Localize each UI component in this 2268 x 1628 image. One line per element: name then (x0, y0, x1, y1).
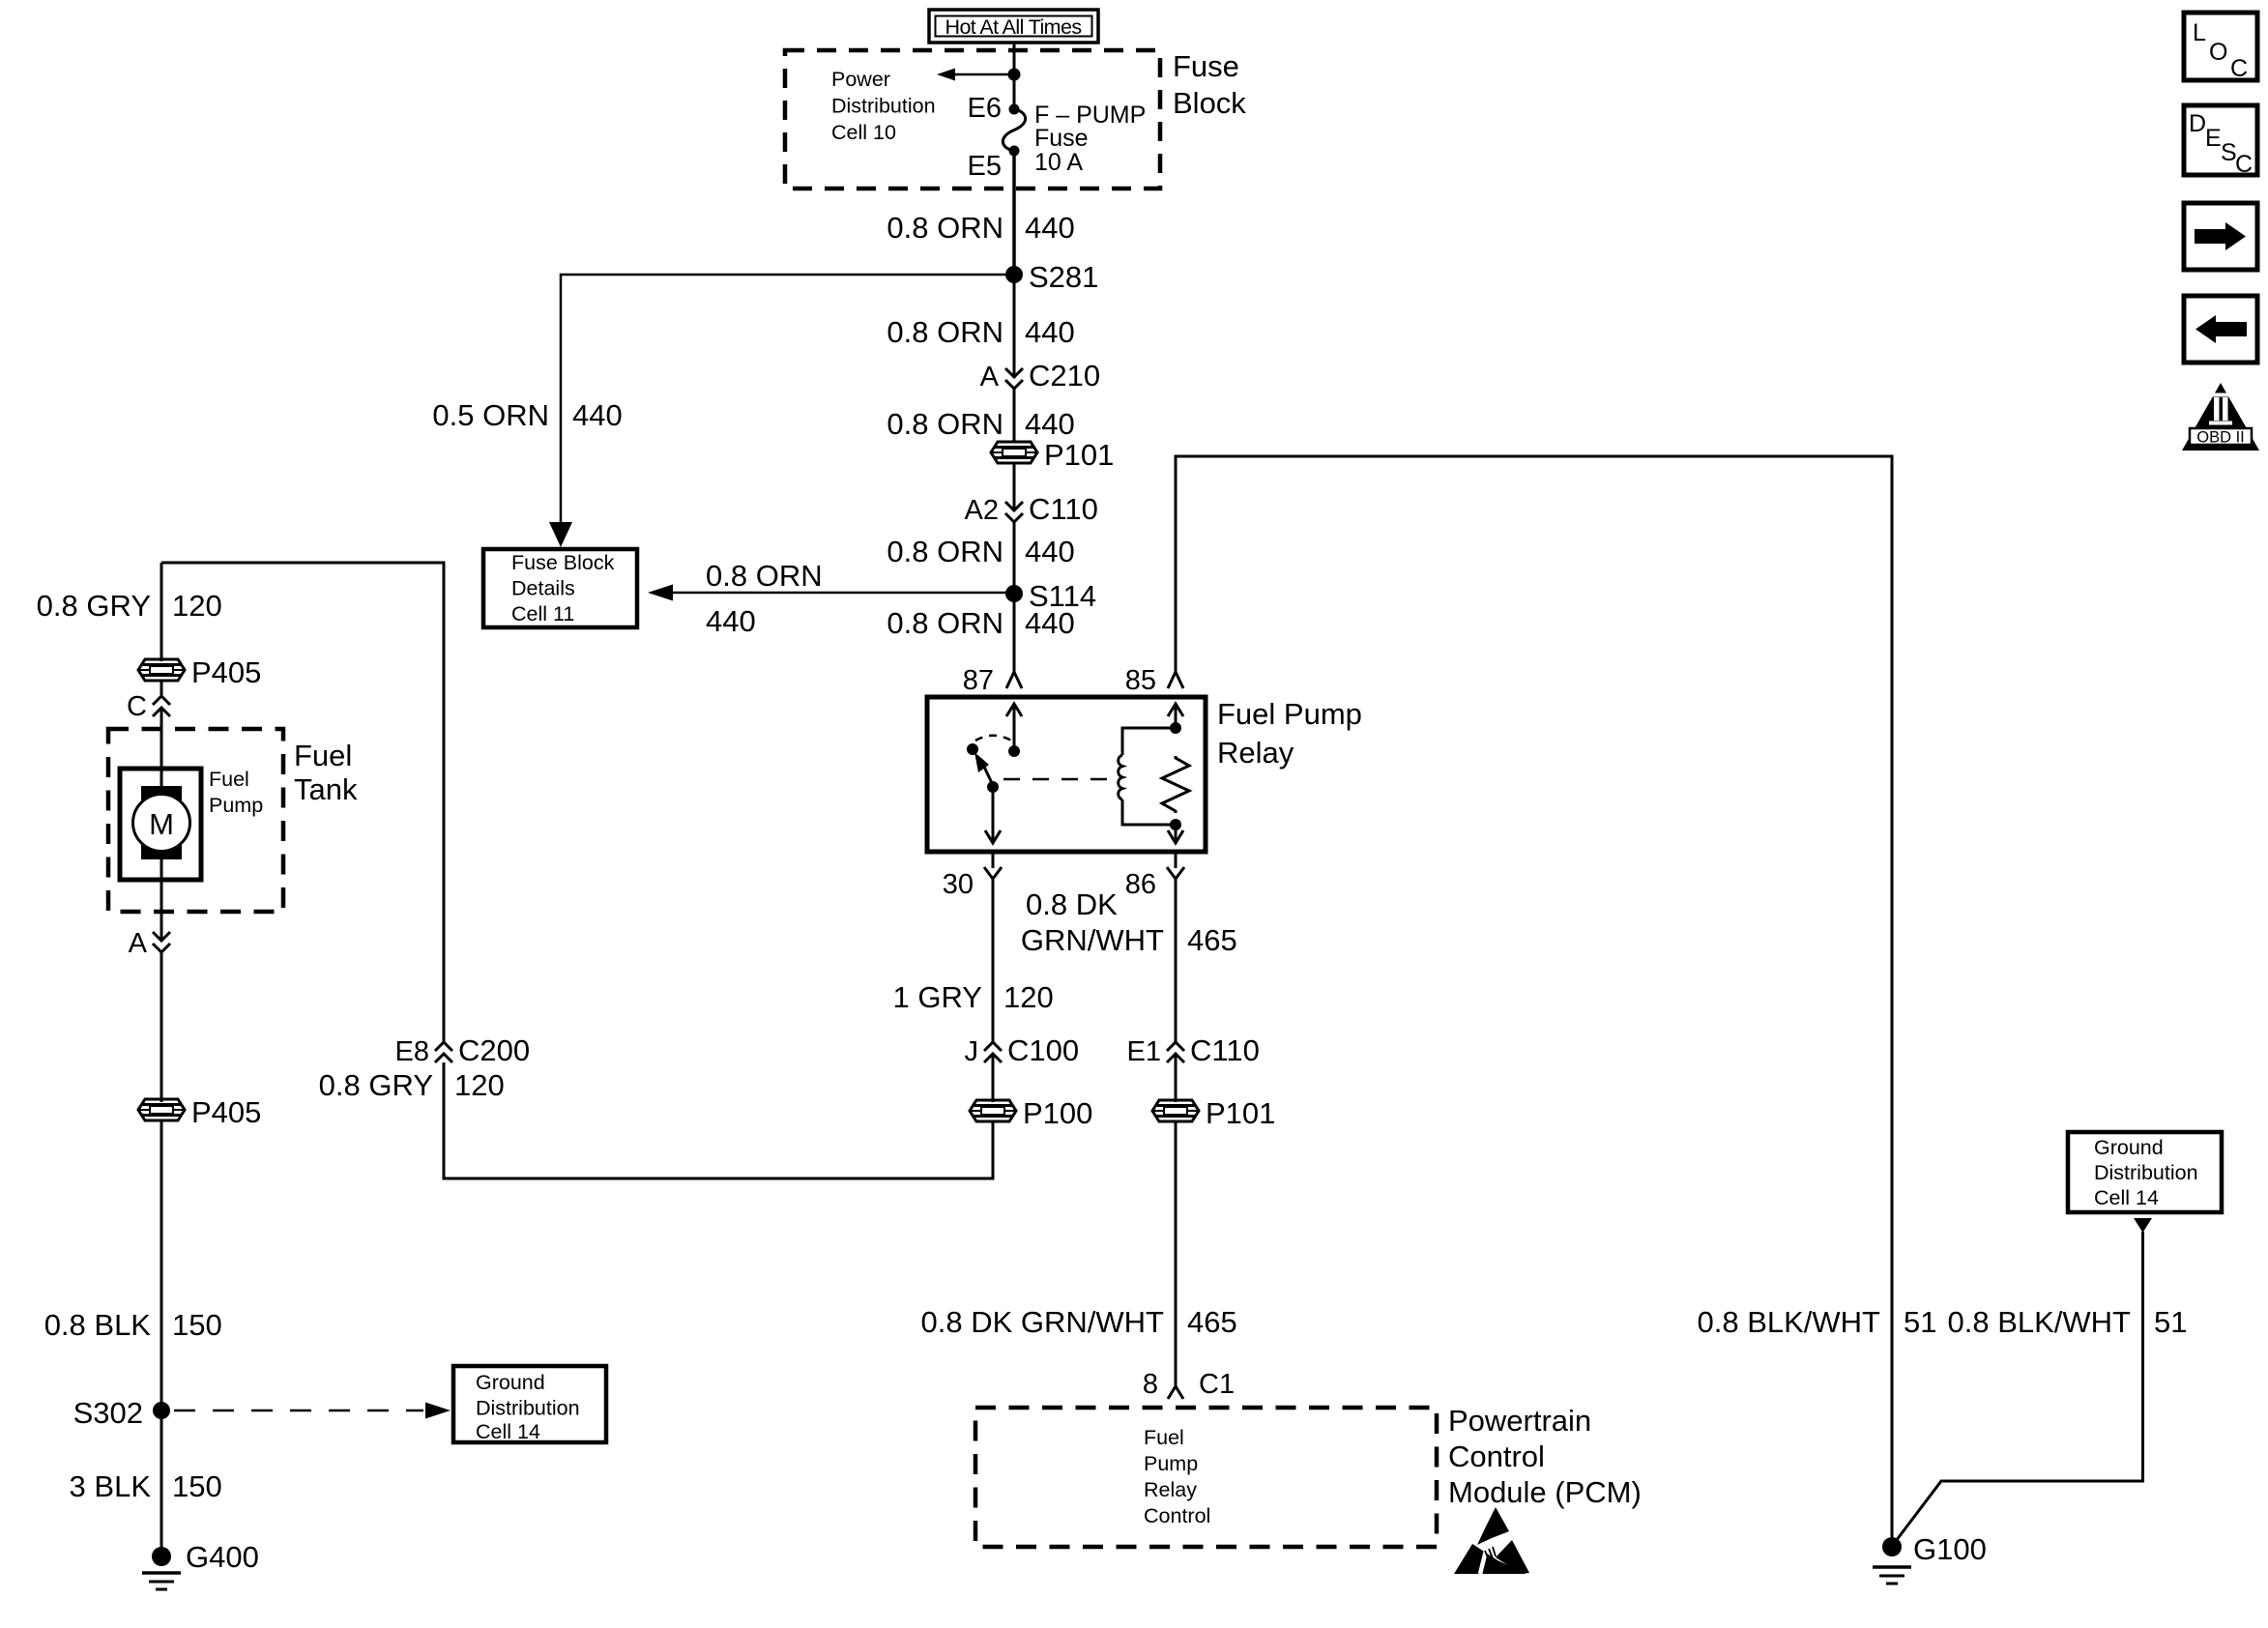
svg-text:150: 150 (172, 1469, 222, 1503)
fuel tank dashed box (108, 729, 283, 912)
svg-text:G100: G100 (1913, 1532, 1987, 1566)
label: 0.8 ORN 440 (fuse to S281) (887, 211, 1074, 245)
label: 0.8 DK GRN/WHT 465 (to PCM) (921, 1305, 1237, 1339)
svg-text:C210: C210 (1029, 359, 1100, 392)
wire: S114 arrow to Fuse Block Details (648, 585, 1014, 601)
wire: pin C into fuel tank (160, 708, 163, 788)
icon: arrow right box (2184, 203, 2257, 270)
wire: P405 down to splice S302 (160, 1120, 163, 1410)
svg-text:OBD II: OBD II (2196, 429, 2245, 447)
label: 0.8 ORN 440 (S114 to relay) (887, 606, 1074, 640)
svg-text:120: 120 (1003, 980, 1054, 1014)
PCM dashed box (975, 1408, 1437, 1547)
svg-text:Control: Control (1448, 1439, 1545, 1473)
svg-text:C110: C110 (1190, 1033, 1260, 1067)
svg-text:0.8 ORN: 0.8 ORN (706, 559, 823, 593)
svg-text:Hot At All Times: Hot At All Times (945, 15, 1082, 39)
svg-text:C: C (127, 691, 147, 722)
svg-text:Relay: Relay (1217, 736, 1294, 770)
wire: motor to pin A (160, 859, 163, 941)
junction box: Ground Distribution Cell 14 (right) (2068, 1132, 2222, 1212)
icon: OBD II triangle (2182, 383, 2259, 451)
label: Power Distribution Cell 10 (831, 68, 936, 144)
svg-text:440: 440 (572, 398, 623, 432)
svg-text:G400: G400 (186, 1540, 259, 1574)
svg-text:Control: Control (1144, 1504, 1210, 1527)
svg-text:Cell 10: Cell 10 (831, 121, 896, 144)
pin 85 chevron (1125, 665, 1183, 696)
wire: pin 30 down to connector C100 (992, 852, 995, 1042)
label: 0.8 ORN / 440 (S114 arrow) (706, 559, 823, 638)
label: Fuel Tank (294, 739, 358, 806)
wire: fuse E5 to splice S281 (1012, 151, 1016, 275)
svg-text:0.8 BLK: 0.8 BLK (44, 1308, 152, 1342)
pin 8 C1 chevron (1143, 1369, 1235, 1400)
svg-text:1 GRY: 1 GRY (893, 980, 982, 1014)
label: Fuse Block (1173, 49, 1246, 120)
svg-text:3 BLK: 3 BLK (70, 1469, 152, 1503)
pin 30 chevron (943, 867, 1002, 900)
svg-text:C1: C1 (1199, 1369, 1235, 1400)
wire: E8 column up and over to fuel tank (161, 563, 444, 1042)
splice S281 (1005, 260, 1098, 294)
junction box: Ground Distribution Cell 14 (left) (453, 1366, 606, 1443)
label: Fuel Pump Relay Control (1144, 1426, 1210, 1527)
svg-text:D: D (2189, 110, 2206, 137)
svg-text:440: 440 (1025, 606, 1075, 640)
svg-text:M: M (149, 807, 174, 841)
connector pin A (double chevron down) (129, 928, 170, 959)
wire: C110 to splice S114 (1013, 522, 1016, 594)
ground G400 (142, 1540, 259, 1589)
ESD symbol (1454, 1507, 1529, 1574)
svg-text:C100: C100 (1007, 1033, 1079, 1067)
svg-text:Distribution: Distribution (831, 95, 936, 118)
label: 0.5 ORN 440 (432, 398, 622, 432)
wire: P100 down, across to E8 column (444, 1062, 993, 1178)
svg-text:0.8 BLK/WHT: 0.8 BLK/WHT (1948, 1305, 2132, 1339)
wire: relay pin 85 up and over to G100 (1176, 456, 1892, 1539)
label: 0.8 BLK/WHT 51 (main wire) (1698, 1305, 1937, 1339)
label: Fuel Pump Relay (1217, 697, 1362, 770)
svg-text:Pump: Pump (1144, 1452, 1198, 1475)
junction box: Hot At All Times (929, 10, 1098, 43)
svg-text:A: A (129, 928, 148, 959)
svg-text:E6: E6 (968, 93, 1002, 124)
svg-text:Distribution: Distribution (476, 1397, 580, 1420)
wire: P101 down to PCM pin 8 (1175, 1121, 1178, 1386)
label: 3 BLK 150 (70, 1469, 222, 1503)
wire: pin A to P405 lower (160, 952, 163, 1102)
svg-text:P405: P405 (191, 655, 261, 689)
wire: C100 to grommet P100 (992, 1054, 995, 1102)
svg-text:51: 51 (2154, 1305, 2187, 1339)
svg-text:86: 86 (1125, 869, 1156, 900)
svg-text:L: L (2193, 19, 2206, 46)
svg-text:Cell 14: Cell 14 (2094, 1186, 2159, 1209)
wire: relay pin 86 down to connector C110 E1 (1175, 852, 1178, 1042)
svg-text:Cell 11: Cell 11 (511, 602, 574, 625)
fuse: F-PUMP 10 A (968, 93, 1147, 182)
svg-text:C: C (2230, 55, 2248, 82)
svg-text:440: 440 (706, 604, 756, 638)
svg-text:Relay: Relay (1144, 1478, 1197, 1501)
grommet P100 (970, 1096, 1092, 1130)
label: 0.8 GRY 120 (E8 wire) (319, 1068, 505, 1102)
svg-text:Fuel: Fuel (294, 739, 352, 772)
svg-text:120: 120 (454, 1068, 505, 1102)
svg-text:Fuse: Fuse (1173, 49, 1239, 83)
svg-text:0.5 ORN: 0.5 ORN (432, 398, 549, 432)
wire: S281 to connector C210 (1013, 275, 1016, 377)
svg-text:Tank: Tank (294, 772, 358, 806)
label: 1 GRY 120 (893, 980, 1054, 1014)
wire: C110 to grommet P101 lower (1175, 1054, 1178, 1102)
label: 0.8 BLK/WHT 51 (branch wire) (1948, 1305, 2188, 1339)
svg-text:A: A (980, 362, 1000, 392)
wire: S281 branch down to Fuse Block Details (549, 275, 1014, 547)
wire: P101 to connector C110 (1013, 463, 1016, 510)
connector C100 pin J (double chevron up) (965, 1033, 1080, 1067)
wire: S114 down to relay pin 87 (1013, 594, 1016, 672)
pin 86 chevron (1125, 867, 1184, 900)
svg-text:Distribution: Distribution (2094, 1161, 2198, 1184)
connector C210 pin A (double chevron down) (980, 359, 1100, 392)
svg-text:0.8 ORN: 0.8 ORN (887, 606, 1003, 640)
svg-text:0.8 ORN: 0.8 ORN (887, 407, 1003, 441)
label: 0.8 GRY 120 (top left) (37, 589, 222, 623)
relay resistor (1162, 756, 1189, 813)
grommet P101 (upper) (991, 438, 1114, 472)
svg-text:440: 440 (1025, 315, 1075, 349)
svg-text:O: O (2209, 39, 2227, 66)
junction box: Fuse Block Details Cell 11 (483, 549, 637, 627)
svg-text:Fuse Block: Fuse Block (511, 551, 615, 574)
svg-text:85: 85 (1125, 665, 1156, 696)
svg-text:C110: C110 (1029, 492, 1098, 526)
svg-text:51: 51 (1904, 1305, 1936, 1339)
svg-text:0.8 ORN: 0.8 ORN (887, 211, 1003, 245)
relay 85 internal lead (1168, 704, 1183, 843)
label: 0.8 ORN 440 (C110 to S114) (887, 535, 1074, 568)
svg-text:Ground: Ground (476, 1371, 545, 1394)
svg-text:10 A: 10 A (1034, 149, 1083, 176)
svg-text:S302: S302 (73, 1396, 143, 1430)
svg-text:Powertrain: Powertrain (1448, 1404, 1591, 1438)
svg-text:E8: E8 (395, 1036, 429, 1067)
svg-text:P101: P101 (1206, 1096, 1275, 1130)
svg-text:P100: P100 (1023, 1096, 1092, 1130)
svg-text:0.8 BLK/WHT: 0.8 BLK/WHT (1698, 1305, 1881, 1339)
svg-text:440: 440 (1025, 535, 1075, 568)
grommet P101 (lower) (1152, 1096, 1275, 1130)
icon: arrow left box (2184, 296, 2257, 363)
svg-text:30: 30 (943, 869, 974, 900)
label: Powertrain Control Module (PCM) (1448, 1404, 1642, 1509)
svg-text:Cell 14: Cell 14 (476, 1420, 540, 1443)
wire: P405 to pin C (160, 681, 163, 696)
svg-text:E1: E1 (1127, 1036, 1161, 1067)
splice S114 (1005, 579, 1096, 613)
relay switch (87 / 30) (967, 704, 1022, 843)
dashed arrow: S302 to Ground Distribution Cell 14 (174, 1403, 451, 1419)
svg-text:0.8 ORN: 0.8 ORN (887, 315, 1003, 349)
svg-text:465: 465 (1187, 1305, 1237, 1339)
svg-text:Pump: Pump (209, 794, 263, 817)
svg-text:440: 440 (1025, 407, 1075, 441)
svg-text:J: J (965, 1036, 979, 1067)
label: 0.8 ORN 440 (C210 to P101) (887, 407, 1074, 441)
svg-text:465: 465 (1187, 923, 1237, 957)
relay coil (1119, 722, 1181, 830)
svg-text:87: 87 (963, 665, 994, 696)
svg-text:150: 150 (172, 1308, 222, 1342)
svg-text:0.8 GRY: 0.8 GRY (319, 1068, 433, 1102)
arrow: out of Ground Distribution box (2134, 1218, 2152, 1233)
svg-text:Details: Details (511, 577, 575, 600)
label: 0.8 ORN 440 (S281 to C210) (887, 315, 1074, 349)
relay: Fuel Pump Relay box (927, 697, 1206, 852)
svg-text:Module (PCM): Module (PCM) (1448, 1475, 1642, 1509)
ground G100 (1873, 1532, 1987, 1584)
svg-text:P101: P101 (1044, 438, 1114, 472)
label: 0.8 DK GRN/WHT 465 (below relay) (1021, 887, 1237, 957)
wire: top-left corner down to P405 (160, 563, 163, 661)
svg-text:0.8 DK: 0.8 DK (1026, 887, 1118, 921)
svg-text:Fuel: Fuel (209, 768, 249, 791)
svg-text:GRN/WHT: GRN/WHT (1021, 923, 1164, 957)
grommet P405 (upper) (138, 655, 261, 689)
dashed link: switch to coil (1003, 778, 1110, 781)
svg-text:Fuse: Fuse (1034, 125, 1089, 152)
svg-text:8: 8 (1143, 1369, 1158, 1400)
svg-text:0.8 DK GRN/WHT: 0.8 DK GRN/WHT (921, 1305, 1165, 1339)
svg-text:Power: Power (831, 68, 890, 91)
splice S302 (73, 1396, 170, 1430)
label: 0.8 BLK 150 (44, 1308, 222, 1342)
fuel pump motor (120, 768, 263, 880)
connector C110 pin A2 (double chevron down) (965, 492, 1098, 526)
svg-text:A2: A2 (965, 495, 999, 526)
svg-text:S281: S281 (1029, 260, 1098, 294)
wire: Ground Distribution to G100 (1893, 1232, 2143, 1545)
svg-text:Ground: Ground (2094, 1136, 2164, 1159)
icon: LOC box (2184, 13, 2257, 82)
wire: battery feed from Hot box into fuse block (1013, 43, 1016, 105)
svg-text:C: C (2235, 151, 2253, 178)
svg-text:0.8 GRY: 0.8 GRY (37, 589, 151, 623)
connector C200 pin E8 (double chevron up) (395, 1033, 531, 1067)
svg-text:Block: Block (1173, 86, 1246, 120)
fuse block dashed outline (785, 50, 1160, 189)
svg-text:Fuel: Fuel (1144, 1426, 1184, 1449)
svg-text:120: 120 (172, 589, 222, 623)
wire: C210 to grommet P101 (1013, 389, 1016, 443)
pin 87 chevron (963, 665, 1022, 696)
svg-text:0.8 ORN: 0.8 ORN (887, 535, 1003, 568)
svg-text:E5: E5 (968, 151, 1002, 182)
svg-text:C200: C200 (458, 1033, 530, 1067)
arrow: to Power Distribution Cell 10 (937, 69, 1021, 81)
grommet P405 (lower) (138, 1095, 261, 1129)
svg-text:440: 440 (1025, 211, 1075, 245)
wire: S302 to ground G400 (160, 1410, 163, 1556)
svg-text:Fuel Pump: Fuel Pump (1217, 697, 1362, 731)
connector pin C (double chevron up) (127, 691, 170, 722)
icon: DESC box (2184, 105, 2257, 178)
svg-text:P405: P405 (191, 1095, 261, 1129)
connector C110 pin E1 (double chevron up) (1127, 1033, 1260, 1067)
svg-text:E: E (2205, 125, 2222, 152)
